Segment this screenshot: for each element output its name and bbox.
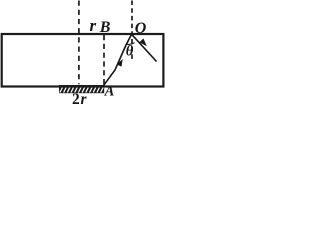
- normal dashed line at O: [131, 1, 133, 60]
- svg-text:r: r: [90, 16, 97, 35]
- reflected ray from O: [132, 34, 157, 61]
- dashed line B to A: [103, 35, 105, 85]
- incident ray A to O: [103, 34, 132, 86]
- arrowhead on reflected ray: [139, 39, 147, 47]
- angle arc for theta: [126, 43, 134, 45]
- svg-text:A: A: [104, 84, 115, 100]
- svg-text:B: B: [99, 19, 111, 36]
- dashed line left edge of light circle: [78, 1, 80, 85]
- arrowhead on incident ray: [117, 59, 123, 67]
- svg-text:O: O: [135, 20, 147, 37]
- svg-text:2r: 2r: [72, 91, 88, 108]
- svg-text:θ: θ: [126, 44, 134, 60]
- tank rectangle: [2, 34, 164, 87]
- hatched strip 2r on bottom: [59, 85, 104, 93]
